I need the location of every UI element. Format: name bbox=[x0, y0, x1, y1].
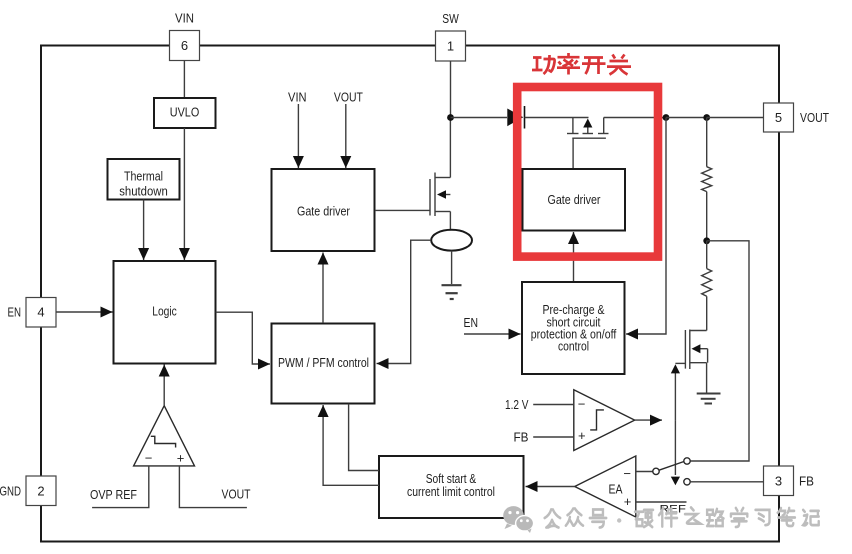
wire VOUT input to OVP bbox=[179, 466, 247, 508]
wire U1 output to switch bbox=[674, 420, 676, 475]
svg-text:VOUT: VOUT bbox=[334, 89, 363, 104]
svg-text:Thermal: Thermal bbox=[124, 169, 163, 184]
svg-text:current limit control: current limit control bbox=[407, 484, 495, 499]
IC outer border bbox=[41, 46, 779, 542]
svg-text:4: 4 bbox=[37, 305, 44, 320]
red highlight box 功率开关 bbox=[517, 87, 658, 257]
svg-text:+: + bbox=[177, 451, 185, 466]
switch S1 wiper bbox=[659, 462, 684, 471]
ground (below Q3) bbox=[697, 394, 721, 404]
error amp EA bbox=[575, 456, 636, 517]
svg-text:5: 5 bbox=[775, 110, 782, 125]
svg-text:SW: SW bbox=[442, 11, 459, 26]
wire OVP REF input bbox=[92, 466, 149, 508]
pin 2 GND bbox=[0, 476, 56, 506]
pin 5 VOUT bbox=[764, 103, 830, 132]
Logic block bbox=[114, 261, 216, 364]
svg-text:1: 1 bbox=[447, 39, 454, 54]
wire CS1 to ground bbox=[451, 251, 453, 284]
svg-text:−: − bbox=[145, 451, 153, 466]
pin 1 SW bbox=[436, 11, 466, 61]
label 功率开关 (red) bbox=[532, 53, 631, 75]
node VOUT-b bbox=[703, 114, 710, 121]
wire PWM/PFM to Soft start bbox=[349, 404, 379, 471]
wire UVLO to Logic bbox=[183, 128, 185, 260]
wire OVP output to Logic bbox=[163, 365, 165, 406]
svg-text:EA: EA bbox=[609, 482, 623, 497]
svg-text:EN: EN bbox=[464, 315, 479, 330]
svg-text:UVLO: UVLO bbox=[170, 105, 200, 120]
svg-text:−: − bbox=[623, 466, 631, 481]
wire EA output to Soft start bbox=[526, 486, 575, 488]
wire Pre-charge to Gate driver (right) bbox=[573, 232, 575, 282]
svg-text:−: − bbox=[578, 397, 586, 412]
svg-text:Gate driver: Gate driver bbox=[297, 203, 351, 218]
svg-text:1.2 V: 1.2 V bbox=[505, 397, 529, 412]
transistor Q1 (SW low-side NMOS) bbox=[430, 118, 450, 231]
svg-text:FB: FB bbox=[514, 429, 529, 444]
svg-text:+: + bbox=[624, 494, 632, 509]
wire Thermal shutdown to Logic bbox=[143, 200, 145, 261]
wire lower throw to pin 3 bbox=[690, 481, 763, 483]
svg-text:shutdown: shutdown bbox=[119, 184, 168, 199]
svg-text:control: control bbox=[558, 339, 589, 354]
svg-text:Gate driver: Gate driver bbox=[548, 192, 602, 207]
Soft start block bbox=[379, 456, 524, 518]
switch S1 common bbox=[653, 468, 659, 474]
wire node a down to Pre-charge bbox=[637, 118, 666, 335]
OVP comparator bbox=[134, 406, 195, 466]
pin 3 FB bbox=[764, 466, 815, 496]
wire EA minus to switch common bbox=[636, 471, 653, 473]
svg-text:EN: EN bbox=[8, 305, 22, 320]
resistor R1 bbox=[702, 118, 712, 241]
wire pin4 EN to Logic bbox=[56, 311, 113, 313]
wire CS1 to PWM/PFM bbox=[388, 240, 431, 363]
wire VOUT label to Gate driver bbox=[345, 104, 347, 168]
watermark text 公众号·硬件之路学习笔记 bbox=[545, 508, 819, 528]
resistor R2 bbox=[702, 241, 712, 331]
wire VIN label to Gate driver bbox=[297, 104, 299, 168]
svg-text:PWM / PFM control: PWM / PFM control bbox=[278, 355, 369, 370]
svg-text:6: 6 bbox=[181, 38, 188, 53]
wire U1 output to Q3 gate bbox=[674, 373, 676, 420]
svg-text:VOUT: VOUT bbox=[222, 487, 251, 502]
wire Logic to PWM/PFM bbox=[216, 312, 258, 364]
Pre-charge block bbox=[522, 282, 625, 374]
wire U1 output bbox=[635, 419, 662, 421]
svg-text:VIN: VIN bbox=[175, 11, 194, 26]
svg-text:Logic: Logic bbox=[152, 304, 177, 319]
wire EA plus to REF bbox=[636, 501, 687, 503]
wire diode to Q2 bbox=[525, 117, 589, 119]
wire 1.2V to U1 bbox=[533, 404, 574, 406]
Gate driver block (right) bbox=[523, 169, 626, 231]
node FB tap bbox=[703, 237, 710, 244]
current sense CS1 (ellipse) bbox=[431, 230, 472, 251]
svg-text:GND: GND bbox=[0, 484, 21, 499]
wire FB to U1 bbox=[533, 436, 574, 438]
svg-text:+: + bbox=[578, 428, 586, 443]
svg-text:3: 3 bbox=[775, 474, 782, 489]
wire FB tap to switch upper throw bbox=[690, 241, 749, 461]
wire Soft start to PWM/PFM bbox=[323, 413, 379, 485]
switch S1 lower throw bbox=[684, 479, 690, 485]
comparator U1 (1.2V / FB) bbox=[574, 390, 635, 451]
UVLO block bbox=[154, 98, 216, 128]
Gate driver block (left) bbox=[272, 169, 375, 251]
PWM / PFM control block bbox=[272, 324, 375, 404]
wire SW pin to node bbox=[450, 61, 452, 118]
ground (below CS1) bbox=[442, 285, 462, 299]
wire EN to Pre-charge bbox=[464, 333, 521, 335]
transistor Q2 (power PMOS pass switch) bbox=[567, 118, 609, 169]
transistor Q3 (FB discharge NMOS) bbox=[675, 330, 707, 393]
pin 6 VIN bbox=[170, 11, 200, 61]
wire Gate driver to Q1 gate bbox=[375, 209, 430, 211]
Thermal shutdown block bbox=[108, 159, 180, 200]
wire VOUT node a to b bbox=[666, 117, 707, 119]
wire Q2 to VOUT node bbox=[604, 117, 666, 119]
svg-text:FB: FB bbox=[799, 474, 814, 489]
svg-text:2: 2 bbox=[37, 484, 44, 499]
wire SW node to diode bbox=[451, 117, 508, 119]
wire node b to pin 5 bbox=[707, 117, 764, 119]
node SW bbox=[447, 114, 454, 121]
wire VIN pin to UVLO bbox=[183, 61, 185, 99]
diode D1 bbox=[507, 106, 524, 129]
switch S1 upper throw bbox=[684, 458, 690, 464]
svg-text:VOUT: VOUT bbox=[800, 110, 829, 125]
svg-text:VIN: VIN bbox=[288, 89, 307, 104]
watermark icon (chat bubbles) bbox=[503, 506, 533, 533]
pin 4 EN bbox=[8, 298, 57, 328]
node VOUT-a bbox=[663, 114, 670, 121]
svg-text:OVP REF: OVP REF bbox=[90, 487, 137, 502]
wire PWM/PFM to Gate driver (left) bbox=[322, 253, 324, 324]
